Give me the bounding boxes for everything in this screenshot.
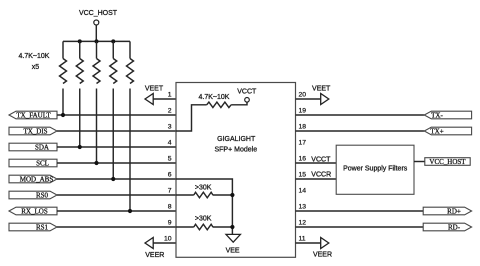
svg-text:VEER: VEER: [313, 251, 332, 258]
port TX_FAULT: [9, 111, 57, 119]
svg-text:Power Supply Filters: Power Supply Filters: [343, 165, 408, 172]
resistor R6 4.7K~10K (internal pull-up): [207, 102, 231, 108]
svg-text:4.7K~10K: 4.7K~10K: [199, 94, 230, 101]
wire R6 to VCCT: [231, 102, 247, 105]
svg-text:RX_LOS: RX_LOS: [21, 208, 48, 216]
junction bus/R2: [78, 39, 82, 43]
svg-text:4: 4: [168, 140, 172, 147]
port RX_LOS: [9, 207, 57, 215]
svg-text:10: 10: [164, 236, 172, 243]
resistor R2: [76, 41, 83, 147]
port VCC_HOST (right): [425, 158, 470, 166]
svg-text:6: 6: [168, 172, 172, 179]
svg-text:2: 2: [168, 108, 172, 115]
wire pin 20: [296, 98, 321, 100]
svg-text:7: 7: [168, 188, 172, 195]
wire pin 10: [153, 242, 176, 244]
port RD+: [423, 207, 471, 215]
wire pin 13 to RD+: [296, 210, 424, 212]
junction R4/MOD_ABS: [111, 177, 115, 181]
wire TX_FAULT to U1 pin 2: [57, 114, 176, 116]
svg-text:8: 8: [168, 204, 172, 211]
svg-text:TX_DIS: TX_DIS: [23, 128, 47, 136]
junction R1/TX_FAULT: [61, 113, 65, 117]
junction R2/SDA: [78, 145, 82, 149]
junction R7/VEE rail: [230, 193, 234, 197]
wire RS0 to U1 pin 7: [57, 194, 176, 196]
block Power Supply Filters: [336, 145, 414, 194]
power arrow VEER (pin 10 left): [145, 238, 164, 259]
resistor R5: [127, 41, 134, 211]
power arrow VEET (pin 1 left): [145, 86, 164, 105]
svg-text:VCC_HOST: VCC_HOST: [79, 10, 118, 17]
resistor R3: [93, 41, 100, 163]
svg-text:TX_FAULT: TX_FAULT: [16, 112, 51, 120]
power symbol VCCT: [237, 89, 257, 103]
port MOD_ABS: [9, 175, 57, 183]
port RS0: [9, 191, 57, 199]
svg-text:12: 12: [299, 220, 307, 227]
wire SDA to U1 pin 4: [57, 146, 176, 148]
wire internal pin 7 lead: [176, 194, 194, 196]
svg-text:VEE: VEE: [226, 248, 240, 255]
port SCL: [9, 159, 57, 168]
junction bus/R4: [111, 39, 115, 43]
svg-text:15: 15: [299, 172, 307, 179]
svg-text:9: 9: [168, 220, 172, 227]
power arrow VEER (pin 11 right): [313, 238, 332, 259]
svg-text:MOD_ABS: MOD_ABS: [20, 176, 54, 184]
svg-text:SDA: SDA: [35, 144, 49, 152]
svg-text:TX-: TX-: [431, 112, 443, 120]
junction R5/RX_LOS: [128, 209, 132, 213]
svg-text:VCCT: VCCT: [311, 156, 331, 163]
svg-text:3: 3: [168, 124, 172, 131]
junction R3/SCL: [94, 161, 98, 165]
svg-text:14: 14: [299, 188, 307, 195]
port SDA: [9, 143, 57, 152]
wire R7 to VEE rail: [213, 194, 233, 196]
resistor R4: [110, 41, 117, 179]
wire SCL to U1 pin 5: [57, 162, 176, 164]
resistor R8 >30K: [194, 224, 213, 230]
svg-text:VEER: VEER: [145, 252, 164, 259]
svg-text:VCCT: VCCT: [237, 89, 257, 96]
svg-text:18: 18: [299, 124, 307, 131]
svg-text:RD-: RD-: [448, 224, 461, 232]
wire RS1 to U1 pin 9: [57, 226, 176, 228]
IC U1 GIGALIGHT SFP+ module body: [176, 83, 296, 258]
svg-text:GIGALIGHT: GIGALIGHT: [217, 136, 256, 143]
svg-text:11: 11: [299, 236, 306, 243]
svg-text:x5: x5: [32, 64, 40, 71]
port RS1: [9, 223, 57, 231]
svg-text:>30K: >30K: [195, 216, 212, 223]
port TX_DIS: [9, 127, 57, 135]
svg-text:SFP+ Modele: SFP+ Modele: [214, 146, 257, 153]
wire pin 12 to RD-: [296, 226, 424, 228]
wire internal pin 9 lead: [176, 226, 194, 228]
wire filter box to VCC_HOST port: [414, 161, 425, 163]
svg-text:VEET: VEET: [312, 86, 331, 93]
wire pin 15 to filter box: [296, 178, 337, 180]
wire MOD_ABS to U1 pin 6: [57, 178, 176, 180]
wire pull-up bus: [63, 40, 130, 42]
resistor R7 >30K: [194, 192, 213, 198]
junction bus/R3: [95, 39, 99, 43]
port TX+: [424, 127, 471, 135]
svg-text:>30K: >30K: [195, 185, 212, 192]
wire TX_DIS to U1 pin 3: [57, 130, 176, 132]
wire RX_LOS to U1 pin 8: [57, 210, 176, 212]
svg-text:16: 16: [299, 156, 307, 163]
ground VEE: [226, 234, 241, 254]
svg-text:RS1: RS1: [36, 224, 49, 232]
svg-text:5: 5: [168, 156, 172, 163]
port TX-: [424, 111, 471, 119]
svg-text:4.7K~10K: 4.7K~10K: [19, 53, 50, 60]
wire pin 19 to TX-: [296, 114, 425, 116]
wire pin 16 to filter box: [296, 162, 337, 164]
svg-text:RD+: RD+: [447, 208, 461, 216]
wire pin 11: [296, 242, 321, 244]
svg-text:SCL: SCL: [36, 160, 49, 168]
svg-text:17: 17: [299, 140, 307, 147]
label resistor bank value 4.7K~10K x5: [19, 53, 50, 71]
power symbol VCC_HOST (top): [79, 10, 118, 41]
junction R8/VEE rail: [230, 225, 234, 229]
wire pin 1: [153, 98, 176, 100]
svg-text:VCCR: VCCR: [311, 172, 331, 179]
resistor R1: [60, 41, 67, 115]
power arrow VEET (pin 20 right): [312, 86, 331, 105]
svg-text:1: 1: [168, 92, 172, 99]
wire internal pin 3 to pull-up resistor: [176, 105, 207, 131]
svg-text:RS0: RS0: [36, 192, 49, 200]
svg-text:TX+: TX+: [430, 128, 443, 136]
wire internal pin 6 to VEE: [176, 179, 232, 234]
svg-text:VCC_HOST: VCC_HOST: [429, 158, 466, 166]
wire R8 to VEE rail: [213, 226, 233, 228]
wire pin 18 to TX+: [296, 130, 425, 132]
port RD-: [423, 223, 471, 231]
svg-text:19: 19: [299, 108, 307, 115]
svg-text:20: 20: [299, 92, 307, 99]
svg-text:VEET: VEET: [145, 86, 164, 93]
svg-text:13: 13: [299, 204, 307, 211]
